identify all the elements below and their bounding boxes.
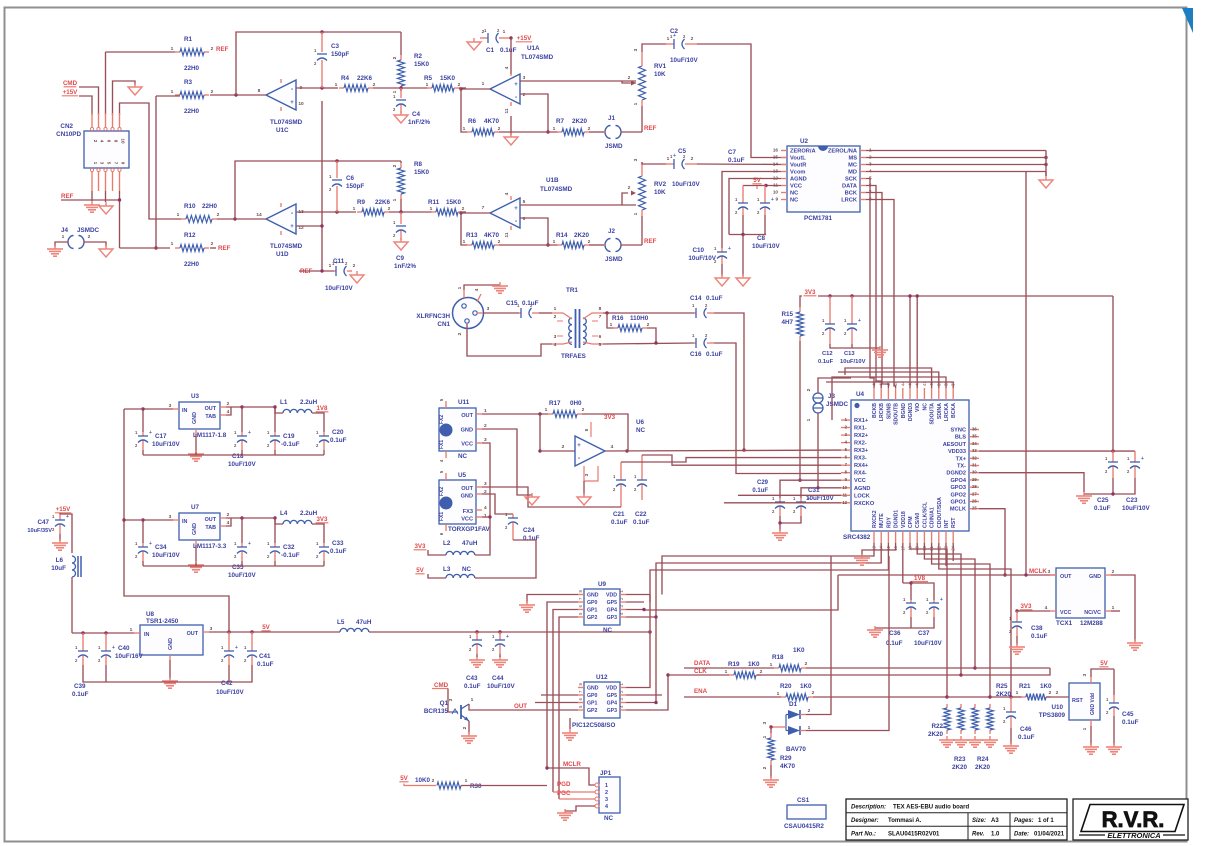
wire bbox=[195, 434, 197, 452]
ground bbox=[953, 736, 969, 747]
svg-text:C46: C46 bbox=[1020, 726, 1032, 733]
label bbox=[523, 527, 540, 542]
svg-text:GP5: GP5 bbox=[607, 600, 617, 606]
wire bbox=[520, 80, 636, 82]
label bbox=[228, 453, 256, 468]
svg-text:+: + bbox=[577, 443, 581, 449]
svg-text:2: 2 bbox=[227, 401, 230, 407]
capacitor C17 bbox=[135, 430, 152, 450]
svg-text:R.V.R.: R.V.R. bbox=[1102, 807, 1165, 832]
wire bbox=[626, 675, 668, 710]
wire bbox=[742, 235, 744, 277]
label bbox=[670, 28, 698, 64]
svg-text:5: 5 bbox=[599, 342, 602, 348]
ground bbox=[772, 529, 788, 540]
wire bbox=[668, 674, 729, 676]
optical receiver U5 bbox=[439, 470, 487, 535]
svg-text:3: 3 bbox=[554, 334, 557, 340]
potentiometer RV2 bbox=[631, 162, 646, 216]
label bbox=[772, 647, 805, 661]
svg-text:1: 1 bbox=[554, 306, 557, 312]
ground bbox=[467, 38, 481, 50]
pin numbers bbox=[667, 36, 694, 42]
svg-text:TRFAES: TRFAES bbox=[561, 353, 586, 360]
wire bbox=[756, 186, 758, 190]
label bbox=[605, 115, 623, 150]
ground bbox=[52, 539, 68, 550]
wire bbox=[400, 32, 402, 55]
svg-text:1: 1 bbox=[667, 156, 670, 162]
svg-text:1: 1 bbox=[633, 212, 639, 215]
wire bbox=[105, 191, 107, 202]
svg-text:OUT: OUT bbox=[461, 413, 473, 419]
svg-text:C45: C45 bbox=[1122, 711, 1134, 718]
svg-text:TR1: TR1 bbox=[566, 287, 578, 294]
svg-text:R3: R3 bbox=[184, 79, 193, 86]
svg-text:R24: R24 bbox=[977, 756, 989, 763]
net label CLK bbox=[694, 668, 707, 675]
svg-text:OUT: OUT bbox=[1060, 574, 1072, 580]
wire bbox=[461, 89, 467, 132]
label bbox=[654, 181, 667, 196]
svg-text:OUT: OUT bbox=[205, 406, 217, 412]
wire bbox=[917, 543, 961, 675]
ground bbox=[99, 202, 113, 214]
junction bbox=[625, 449, 628, 452]
svg-text:DGND2: DGND2 bbox=[946, 471, 966, 477]
junction bbox=[742, 448, 745, 451]
wire bbox=[106, 51, 176, 53]
svg-text:NC: NC bbox=[604, 815, 614, 822]
ground bbox=[350, 271, 364, 283]
connector J2 bbox=[604, 239, 622, 252]
label bbox=[611, 511, 628, 526]
svg-text:RX2-: RX2- bbox=[854, 441, 867, 447]
wire bbox=[55, 242, 68, 247]
svg-text:+: + bbox=[771, 197, 774, 203]
pin numbers bbox=[1016, 690, 1059, 696]
svg-text:PIC12C508/SO: PIC12C508/SO bbox=[572, 722, 616, 729]
svg-text:15K0: 15K0 bbox=[440, 75, 456, 82]
pin numbers bbox=[463, 239, 501, 245]
label bbox=[654, 63, 667, 78]
wire bbox=[684, 667, 774, 669]
svg-text:15: 15 bbox=[773, 155, 779, 160]
svg-text:MS: MS bbox=[848, 156, 857, 162]
svg-text:4: 4 bbox=[227, 520, 230, 526]
label bbox=[690, 351, 723, 358]
wire bbox=[156, 95, 180, 97]
wire bbox=[1112, 296, 1114, 451]
wire bbox=[757, 674, 781, 676]
label bbox=[487, 675, 515, 690]
svg-text:BGND: BGND bbox=[901, 403, 907, 419]
svg-text:0H0: 0H0 bbox=[570, 400, 582, 407]
svg-text:R6: R6 bbox=[468, 118, 477, 125]
op-amp U1A bbox=[490, 74, 520, 106]
wire bbox=[236, 32, 401, 95]
svg-text:10uF/10V: 10uF/10V bbox=[228, 461, 256, 468]
svg-text:R29: R29 bbox=[780, 755, 792, 762]
wire bbox=[322, 87, 338, 89]
capacitor C34 bbox=[135, 541, 152, 561]
label bbox=[184, 36, 200, 72]
svg-text:1 of 1: 1 of 1 bbox=[1038, 818, 1054, 824]
ground bbox=[504, 133, 518, 145]
svg-text:BAV70: BAV70 bbox=[786, 746, 806, 753]
svg-text:+: + bbox=[673, 153, 676, 159]
svg-text:NC: NC bbox=[790, 198, 798, 204]
svg-text:1: 1 bbox=[426, 82, 429, 88]
svg-text:R19: R19 bbox=[728, 661, 740, 668]
junction bbox=[666, 673, 669, 676]
wire bbox=[459, 87, 466, 89]
label bbox=[604, 815, 614, 822]
label bbox=[414, 161, 430, 176]
label bbox=[443, 566, 472, 573]
ground bbox=[557, 809, 573, 820]
svg-text:C9: C9 bbox=[396, 255, 405, 262]
svg-text:3: 3 bbox=[1048, 569, 1051, 575]
IC U2 PCM1781 bbox=[773, 146, 872, 212]
capacitor C18 bbox=[234, 430, 251, 450]
pin numbers bbox=[256, 209, 304, 231]
svg-text:JSMDC: JSMDC bbox=[826, 401, 848, 408]
svg-text:2: 2 bbox=[605, 790, 608, 796]
wire bbox=[499, 131, 558, 133]
pin numbers bbox=[171, 241, 214, 247]
wire bbox=[59, 534, 61, 541]
wire bbox=[603, 343, 694, 344]
svg-text:CLK: CLK bbox=[694, 668, 707, 675]
svg-text:C38: C38 bbox=[1031, 625, 1043, 632]
svg-text:L3: L3 bbox=[443, 566, 451, 573]
svg-text:Rev.: Rev. bbox=[972, 832, 985, 838]
label bbox=[394, 255, 416, 270]
junction bbox=[154, 246, 157, 249]
capacitor C39 bbox=[75, 633, 88, 665]
svg-text:CN10PD: CN10PD bbox=[56, 131, 81, 138]
svg-text:2: 2 bbox=[812, 690, 815, 696]
svg-text:0.1uF: 0.1uF bbox=[257, 661, 274, 668]
wire bbox=[448, 689, 451, 713]
ground bbox=[562, 729, 578, 740]
ground bbox=[982, 736, 998, 747]
capacitor C4 bbox=[393, 88, 406, 113]
op-amp U6 bbox=[575, 436, 605, 466]
svg-text:NC: NC bbox=[636, 427, 646, 434]
wire bbox=[400, 199, 402, 212]
IC U3 LM1117-1.8 bbox=[173, 402, 226, 434]
wire bbox=[553, 610, 578, 793]
svg-text:REF: REF bbox=[216, 46, 229, 53]
junction bbox=[335, 159, 338, 162]
resistor R25 bbox=[987, 704, 994, 734]
svg-text:U4: U4 bbox=[856, 391, 865, 398]
svg-text:L4: L4 bbox=[280, 510, 288, 517]
svg-text:11: 11 bbox=[504, 232, 510, 237]
junction bbox=[320, 269, 323, 272]
power flag 3V3 bbox=[414, 543, 427, 550]
svg-text:C16: C16 bbox=[690, 351, 702, 358]
svg-text:1K0: 1K0 bbox=[748, 661, 760, 668]
wire bbox=[770, 727, 772, 733]
junction bbox=[273, 516, 276, 519]
svg-text:+: + bbox=[514, 206, 518, 212]
svg-text:+: + bbox=[66, 514, 69, 520]
junction bbox=[816, 486, 819, 489]
svg-text:C29: C29 bbox=[757, 480, 769, 486]
junction bbox=[769, 725, 772, 728]
svg-text:VCC: VCC bbox=[854, 478, 866, 484]
wire bbox=[622, 81, 628, 83]
svg-text:2: 2 bbox=[498, 126, 501, 132]
pin numbers bbox=[482, 66, 526, 113]
svg-text:GND: GND bbox=[168, 638, 174, 650]
power flag 5V bbox=[415, 567, 424, 574]
wire bbox=[142, 450, 144, 455]
svg-text:5V: 5V bbox=[400, 775, 408, 782]
svg-text:C13: C13 bbox=[844, 351, 855, 357]
svg-text:1: 1 bbox=[353, 206, 356, 212]
wire bbox=[241, 561, 243, 566]
capacitor C14 bbox=[692, 303, 714, 318]
label bbox=[826, 393, 848, 408]
svg-text:1: 1 bbox=[62, 234, 65, 240]
svg-text:RX1-: RX1- bbox=[854, 426, 867, 432]
wire bbox=[123, 409, 125, 520]
wire bbox=[369, 631, 650, 633]
resistor R11 bbox=[431, 209, 463, 216]
svg-text:Pages:: Pages: bbox=[1014, 818, 1034, 824]
svg-text:CS/A0: CS/A0 bbox=[915, 513, 921, 528]
svg-text:U8: U8 bbox=[146, 611, 155, 618]
wire bbox=[642, 162, 666, 164]
svg-text:6: 6 bbox=[523, 216, 526, 222]
wire bbox=[124, 519, 143, 521]
svg-text:C32: C32 bbox=[283, 544, 295, 551]
svg-text:2K20: 2K20 bbox=[975, 764, 991, 771]
wire bbox=[527, 595, 578, 604]
IC U7 LM1117-3.3 bbox=[173, 513, 226, 545]
capacitor C3 bbox=[314, 32, 327, 88]
wire bbox=[721, 264, 723, 276]
junction bbox=[959, 673, 962, 676]
resistor R22 bbox=[944, 704, 951, 734]
svg-text:2: 2 bbox=[353, 263, 356, 269]
svg-text:RDY: RDY bbox=[886, 517, 892, 528]
svg-text:1: 1 bbox=[667, 36, 670, 42]
svg-text:C33: C33 bbox=[332, 540, 344, 547]
junction bbox=[320, 86, 323, 89]
label bbox=[780, 755, 796, 770]
wire bbox=[461, 213, 467, 245]
svg-text:1: 1 bbox=[392, 90, 398, 93]
junction bbox=[909, 581, 912, 584]
capacitor C11 bbox=[332, 260, 352, 276]
wire bbox=[714, 313, 744, 450]
ground bbox=[492, 282, 508, 293]
wire bbox=[875, 617, 911, 628]
svg-text:5V: 5V bbox=[416, 567, 424, 574]
resistor R16 bbox=[613, 325, 647, 332]
svg-text:C4: C4 bbox=[412, 111, 421, 118]
svg-text:1: 1 bbox=[329, 263, 332, 269]
svg-text:TCX1: TCX1 bbox=[1056, 620, 1073, 627]
junction bbox=[118, 198, 121, 201]
pin numbers bbox=[562, 428, 614, 476]
wire bbox=[428, 550, 446, 555]
pin numbers bbox=[177, 212, 220, 218]
svg-text:RX1+: RX1+ bbox=[854, 418, 869, 424]
svg-text:L6: L6 bbox=[56, 557, 64, 564]
wire bbox=[83, 665, 229, 682]
svg-text:14: 14 bbox=[773, 162, 779, 167]
wire bbox=[729, 234, 766, 236]
svg-text:R9: R9 bbox=[357, 199, 366, 206]
junction bbox=[1111, 492, 1114, 495]
capacitor C37 bbox=[926, 597, 943, 617]
svg-text:C21: C21 bbox=[613, 511, 625, 518]
label bbox=[996, 683, 1012, 698]
junction bbox=[141, 518, 144, 521]
pin numbers bbox=[553, 239, 591, 245]
label bbox=[184, 203, 218, 210]
svg-text:FX1: FX1 bbox=[439, 512, 445, 521]
svg-text:C37: C37 bbox=[918, 630, 930, 637]
ground bbox=[188, 450, 204, 461]
wire bbox=[589, 131, 605, 133]
svg-text:GND: GND bbox=[461, 428, 473, 434]
wire bbox=[210, 247, 216, 249]
svg-text:2: 2 bbox=[762, 766, 768, 769]
resistor R7 bbox=[557, 129, 589, 136]
label bbox=[928, 723, 944, 738]
junction bbox=[545, 766, 548, 769]
svg-text:GPO3: GPO3 bbox=[950, 485, 966, 491]
svg-text:+: + bbox=[940, 597, 943, 603]
label bbox=[728, 149, 745, 164]
net label PGD bbox=[557, 781, 571, 788]
svg-text:4: 4 bbox=[1045, 605, 1048, 611]
svg-text:4: 4 bbox=[605, 804, 608, 810]
label bbox=[784, 823, 824, 830]
capacitor C5 bbox=[666, 153, 697, 169]
svg-text:CN1: CN1 bbox=[437, 321, 450, 328]
net label REF bbox=[216, 46, 229, 53]
potentiometer RV1 bbox=[628, 52, 646, 106]
svg-text:GP3: GP3 bbox=[607, 615, 617, 621]
capacitor C38 bbox=[1009, 611, 1022, 636]
svg-text:10uF/10V: 10uF/10V bbox=[487, 683, 515, 690]
label bbox=[424, 75, 456, 82]
label bbox=[470, 783, 482, 790]
svg-text:22K6: 22K6 bbox=[357, 75, 373, 82]
wire bbox=[274, 450, 276, 455]
svg-text:R20: R20 bbox=[780, 683, 792, 690]
ground bbox=[1106, 743, 1122, 754]
svg-text:2: 2 bbox=[388, 206, 391, 212]
junction bbox=[764, 184, 767, 187]
svg-text:CDOUT/SDA: CDOUT/SDA bbox=[937, 497, 943, 528]
IC U8 TSR1-2450 bbox=[134, 625, 209, 660]
capacitor C23 bbox=[1127, 451, 1144, 478]
label bbox=[549, 400, 582, 407]
label bbox=[280, 399, 318, 406]
wire bbox=[779, 516, 781, 523]
junction bbox=[642, 608, 645, 611]
wire bbox=[1025, 172, 1027, 576]
capacitor C1 bbox=[480, 28, 511, 43]
label bbox=[688, 247, 716, 262]
svg-text:3: 3 bbox=[484, 437, 487, 443]
svg-text:34: 34 bbox=[972, 441, 977, 446]
svg-text:PCM1781: PCM1781 bbox=[804, 215, 832, 222]
svg-text:VoutL: VoutL bbox=[790, 156, 806, 162]
svg-text:RX3-: RX3- bbox=[854, 456, 867, 462]
net label REF bbox=[644, 238, 657, 245]
wire bbox=[91, 191, 93, 201]
wire bbox=[818, 295, 1113, 297]
svg-text:NC/VC: NC/VC bbox=[1084, 610, 1101, 616]
wire bbox=[226, 407, 242, 432]
svg-text:3: 3 bbox=[210, 626, 213, 632]
label bbox=[728, 661, 760, 668]
svg-text:11: 11 bbox=[843, 492, 848, 497]
junction bbox=[605, 311, 608, 314]
svg-text:1: 1 bbox=[171, 89, 174, 95]
wire bbox=[603, 312, 694, 314]
label bbox=[27, 519, 52, 534]
label bbox=[191, 393, 227, 439]
svg-text:10K0: 10K0 bbox=[415, 777, 431, 784]
svg-text:R7: R7 bbox=[556, 118, 565, 125]
wire bbox=[469, 704, 513, 710]
svg-text:4: 4 bbox=[611, 444, 614, 450]
net label REF bbox=[300, 268, 313, 275]
svg-text:2K20: 2K20 bbox=[952, 764, 968, 771]
junction bbox=[1024, 573, 1027, 576]
svg-text:0.1uF: 0.1uF bbox=[523, 535, 540, 542]
wire bbox=[142, 520, 144, 543]
wire bbox=[641, 216, 643, 245]
wire bbox=[1016, 636, 1018, 645]
svg-text:1nF/2%: 1nF/2% bbox=[408, 119, 430, 126]
wire bbox=[124, 520, 229, 632]
svg-text:RX2+: RX2+ bbox=[854, 433, 869, 439]
svg-text:2: 2 bbox=[806, 388, 812, 391]
wire bbox=[142, 409, 144, 432]
wire bbox=[482, 429, 532, 495]
label bbox=[56, 123, 81, 138]
wire bbox=[1090, 726, 1092, 745]
ground bbox=[939, 736, 955, 747]
svg-text:4K70: 4K70 bbox=[484, 232, 500, 239]
svg-text:1: 1 bbox=[553, 239, 556, 245]
svg-text:2: 2 bbox=[628, 75, 631, 81]
svg-text:25: 25 bbox=[972, 506, 977, 511]
svg-text:32: 32 bbox=[972, 455, 977, 460]
inductor L2 bbox=[446, 551, 475, 555]
junction bbox=[546, 130, 549, 133]
transformer TR1 bbox=[552, 309, 603, 348]
svg-text:REF: REF bbox=[644, 238, 657, 245]
label bbox=[346, 175, 364, 190]
capacitor C21 bbox=[613, 462, 626, 507]
wire bbox=[299, 270, 334, 272]
power flag 5V bbox=[399, 775, 408, 782]
svg-text:+: + bbox=[112, 645, 115, 651]
